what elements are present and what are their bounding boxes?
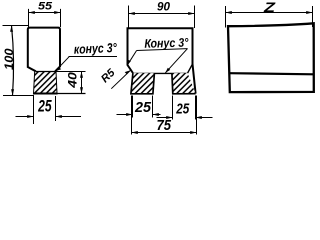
dim 25L ext left fig2 [132,96,134,118]
dim 25L line left tail fig2 [117,114,133,116]
dim 25L line right tail fig2 [153,114,161,116]
dim 90 dimension line [129,13,195,15]
dim 100 top extension [3,25,30,27]
body fig1 outline [28,28,60,94]
body fig2 bottom line [133,72,188,74]
dim 90 arrow right [188,12,194,15]
body fig2 right inner slant [188,64,193,73]
stem bottom thick line fig1 [33,93,58,95]
svg-text:55: 55 [38,0,53,12]
dim 40 arrow bottom [80,87,83,93]
dim 75 ext left fig2 [131,96,133,135]
dim 40 bottom extension [58,93,86,95]
dim 25 fig1 ext left [33,96,35,124]
konus leader left fig2 [127,51,136,66]
dim 25R line left tail fig2 [157,117,173,119]
konus 3 shelf fig2 [137,49,188,51]
dim 90 ext left [128,6,130,29]
dim 75 ext right fig2 [196,96,198,135]
dim 55 arrow left [29,11,35,14]
dim 25R ext left fig2 [172,96,174,120]
svg-text:40: 40 [68,72,80,89]
svg-text:75: 75 [156,117,171,134]
dim 25R line right tail fig2 [196,117,213,119]
right leg hatch fig2 [172,73,196,94]
dim 55 arrow right [54,11,60,14]
dim 25R arrow right fig2 [196,116,202,119]
body fig3 outline [228,23,314,92]
leader konus fig1 arrow [55,67,61,71]
dim Z dimension line [226,12,313,14]
svg-text:конус 3°: конус 3° [73,40,117,57]
svg-text:Z: Z [263,0,276,15]
svg-text:R5: R5 [99,66,118,85]
dim 90 ext right [194,6,196,29]
dim Z arrow right [306,11,312,14]
dim 25L ext right fig2 [152,96,154,118]
konus leader left arrow fig2 [127,60,131,66]
konus leader right arrow fig2 [165,68,170,73]
dim 90 arrow left [129,12,135,15]
svg-text:25: 25 [134,99,152,116]
left leg hatch fig2 [131,73,155,94]
dim Z ext right [312,6,314,27]
dim 100 arrow bottom [11,89,14,95]
dim Z ext left [225,6,227,28]
dim 25L arrow left fig2 [126,113,132,116]
dim 75 arrow right fig2 [190,131,196,134]
dim 25R arrow left fig2 [166,116,172,119]
leader konus fig1 [55,56,69,71]
dim 55 extension line right [60,9,62,27]
konus leader right fig2 [165,49,187,73]
dim 75 arrow left fig2 [132,131,138,134]
svg-text:25: 25 [175,101,189,118]
dim 40 dimension line [81,72,83,94]
dim 25R ext right fig2 [195,96,197,120]
fig3 middle line [230,73,314,74]
right leg outline fig2 [172,73,196,94]
dim 100 bottom extension [3,95,34,97]
dim 75 dimension line fig2 [132,132,197,134]
dim 25L arrow right fig2 [153,113,159,116]
dim 25 fig1 arrow right [56,115,62,118]
dim 40 top extension [56,71,86,73]
body fig2 outline [128,28,196,93]
dim 55 extension line left [28,9,30,27]
svg-text:25: 25 [37,97,52,115]
left leg outline fig2 [131,73,155,94]
svg-text:90: 90 [157,0,170,13]
konus 3 shelf fig1 [69,56,118,58]
dim 25 fig1 dimension line left tail [16,116,34,118]
dim 100 dimension line [12,26,14,96]
dim 25 fig1 arrow left [27,115,33,118]
dim Z arrow left [226,11,232,14]
svg-text:100: 100 [2,48,16,70]
R5 arrow [125,70,131,74]
dim 25 fig1 ext right [55,96,57,121]
stem hatch fig1 [34,71,57,94]
dim 25 fig1 dimension line right tail [56,116,82,118]
dim 40 arrow top [80,72,83,78]
dim 55 dimension line [29,12,61,14]
stem top line fig1 [35,71,55,73]
dim 100 arrow top [10,26,13,32]
R5 leader [111,70,130,89]
